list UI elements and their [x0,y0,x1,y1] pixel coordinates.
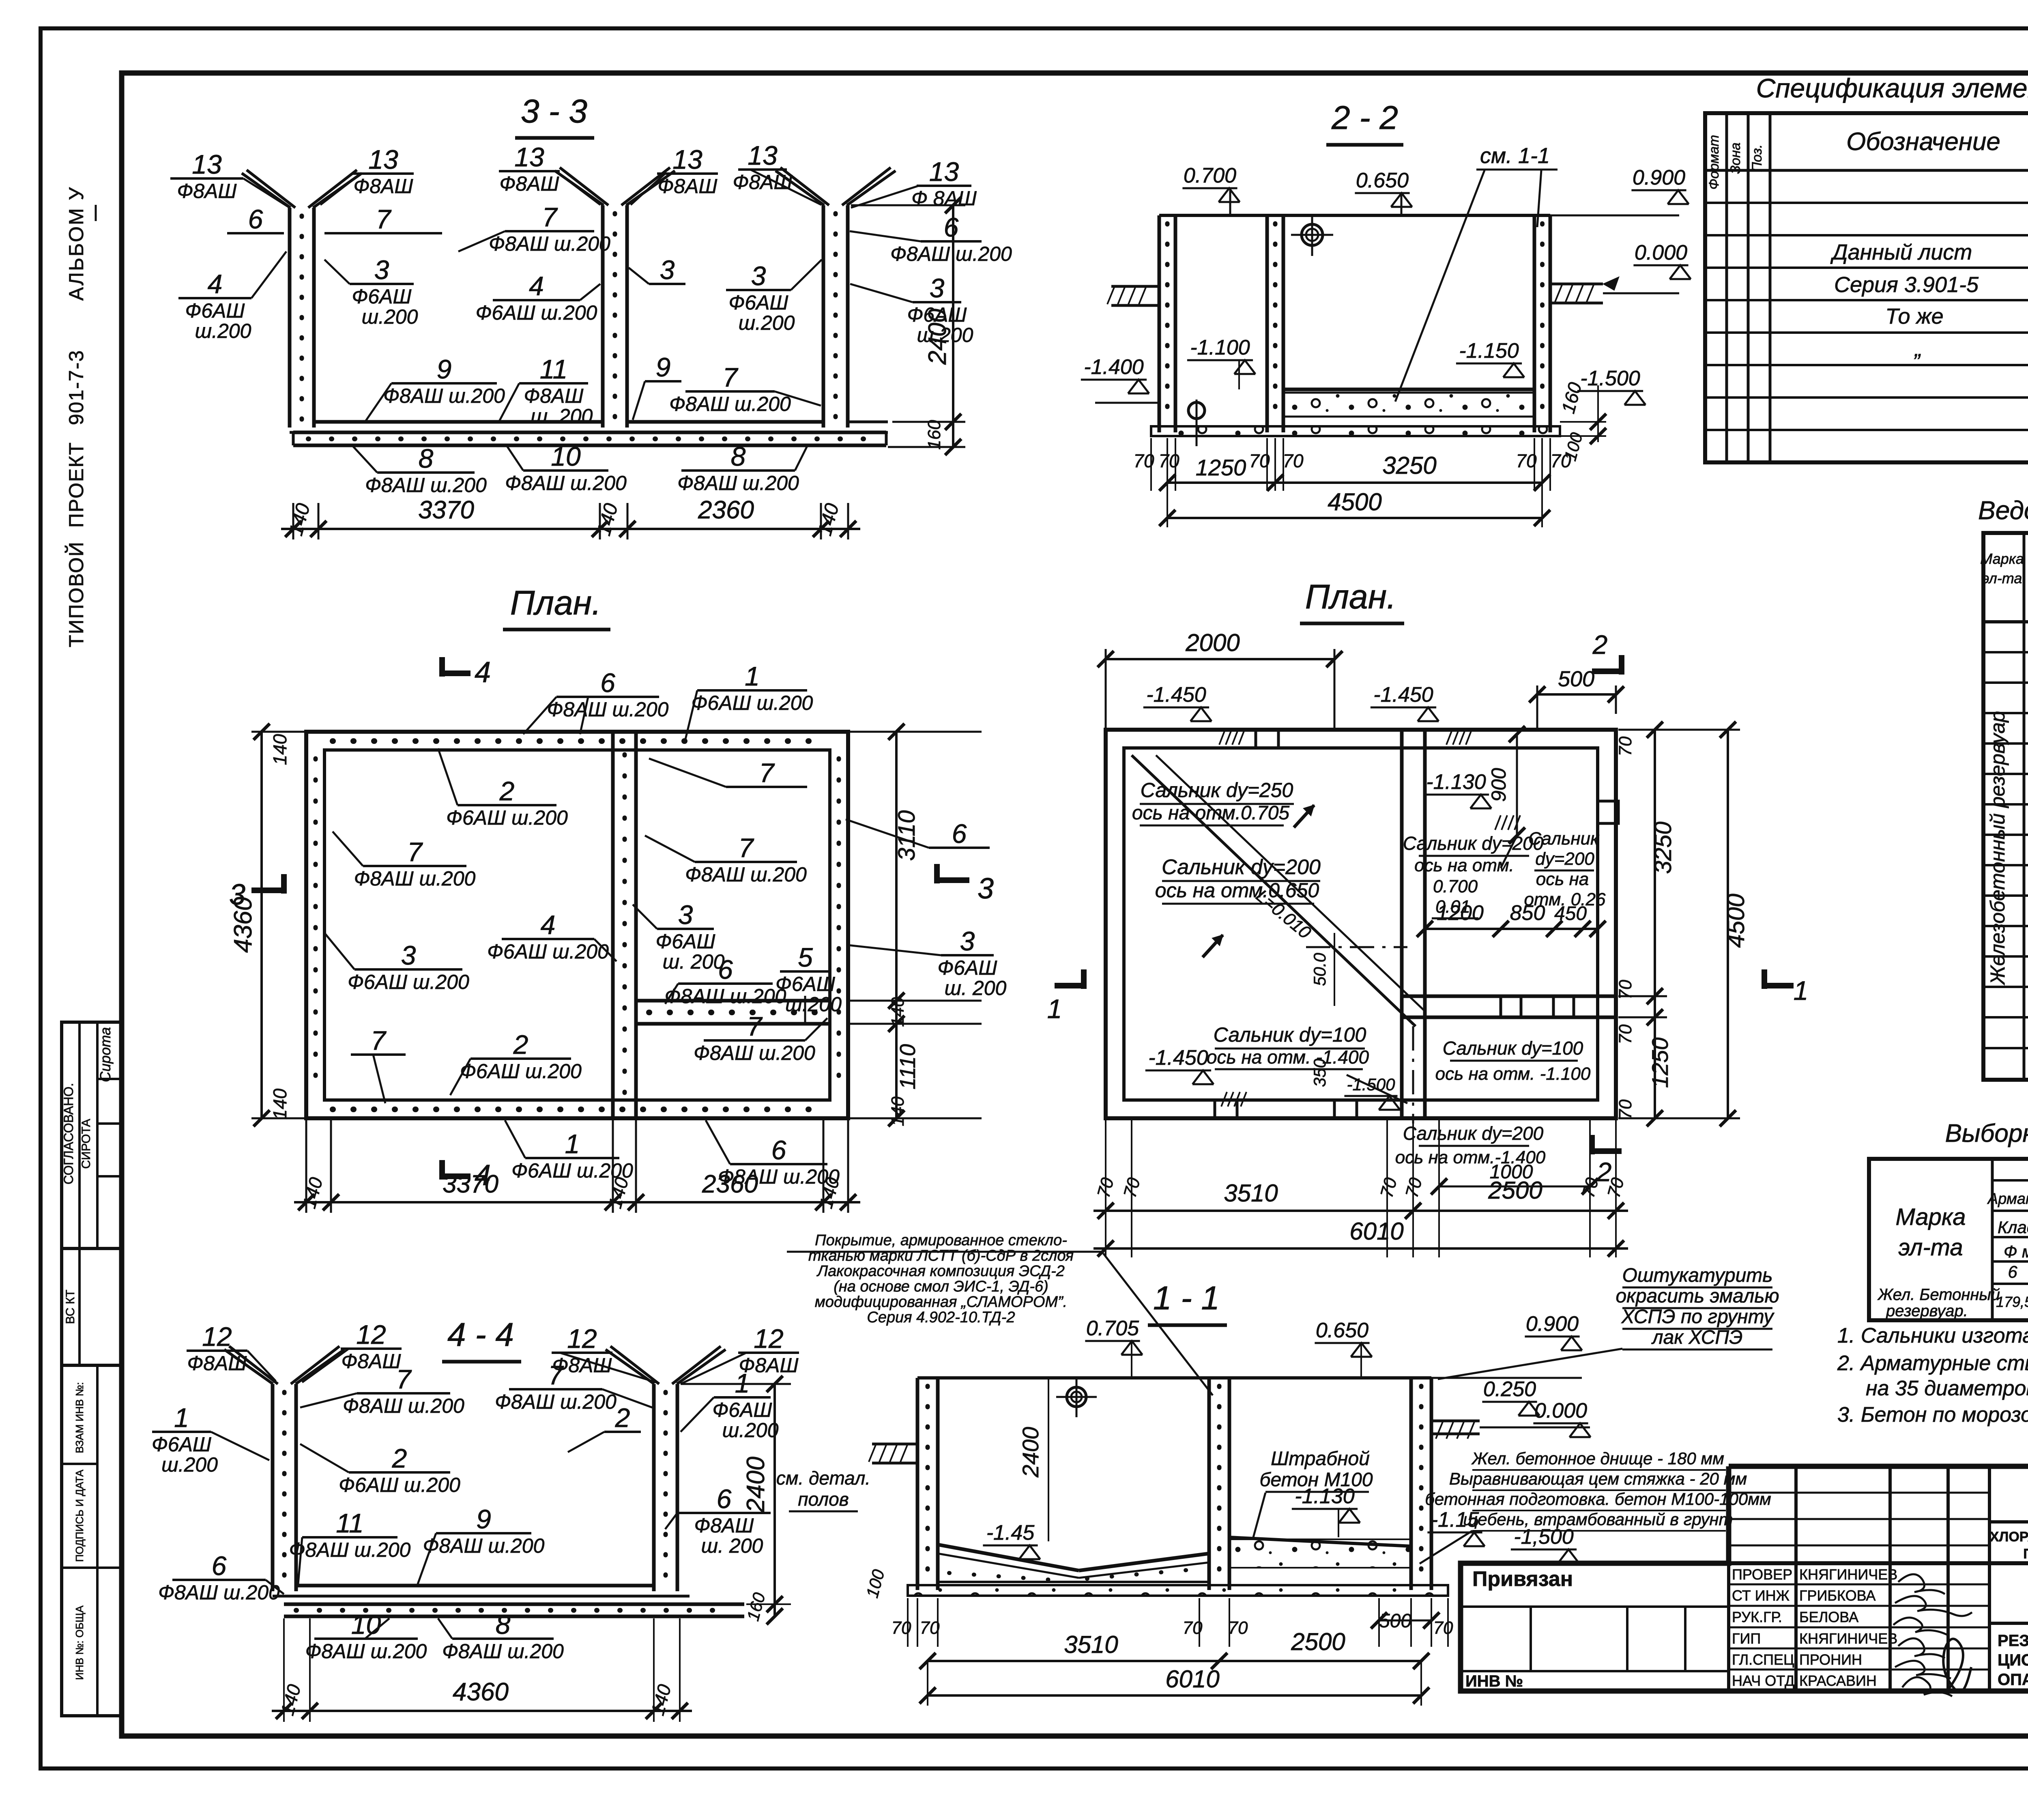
svg-text:8: 8 [496,1609,511,1640]
section 1-1 bottom dims [907,1598,909,1647]
svg-text:70: 70 [1228,1618,1248,1638]
svg-text:2360: 2360 [698,496,754,524]
svg-text:-1.400: -1.400 [1084,355,1144,379]
svg-text:9: 9 [656,352,671,382]
section 4-4 wall left [271,1384,275,1591]
section 4-4 bottom dims [272,1710,692,1712]
svg-text:6: 6 [771,1135,786,1165]
svg-text:4: 4 [529,271,544,301]
svg-text:Железобетонный резервуар: Железобетонный резервуар [1986,711,2009,986]
section 2-2 bottom slab [1151,426,1560,436]
svg-text:полов: полов [798,1489,849,1510]
svg-text:3250: 3250 [1382,452,1436,479]
section 3-3 bottom dimensions 140 3370 140 2360 140 [281,528,860,530]
title block signatures [1898,1574,1945,1594]
svg-text:Ф8АШ ш.200: Ф8АШ ш.200 [495,1390,617,1413]
svg-text:Ф6АШ ш.200: Ф6АШ ш.200 [692,692,813,714]
svg-text:Формат: Формат [1706,135,1722,189]
svg-text:модифицированная „СЛАМОРОМ”.: модифицированная „СЛАМОРОМ”. [815,1294,1068,1311]
svg-text:2: 2 [615,1403,630,1433]
title block left attrs box [1461,1605,1729,1608]
svg-text:Сальник dy=200: Сальник dy=200 [1403,1123,1544,1144]
svg-text:3370: 3370 [418,496,474,524]
svg-text:Ф8АШ ш.200: Ф8АШ ш.200 [305,1640,427,1663]
svg-text:3510: 3510 [1064,1631,1118,1658]
section 3-3 label 7 Ф8АШ ш.200 middle [505,230,594,232]
svg-text:0.700: 0.700 [1184,164,1236,187]
svg-text:3: 3 [751,261,766,291]
svg-text:3: 3 [930,273,945,303]
svg-text:Ф6АШ: Ф6АШ [352,285,412,308]
svg-text:Сальник dy=100: Сальник dy=100 [1214,1023,1366,1046]
svg-text:ш.200: ш.200 [362,305,418,328]
svg-text:3: 3 [660,255,675,285]
svg-text:Ф8АШ ш.200: Ф8АШ ш.200 [365,474,487,496]
svg-text:Спецификация элементов монол: Спецификация элементов монолитной констр… [1756,73,2028,103]
section 1-1 right chamber gravel bed [1229,1537,1411,1546]
svg-text:Выборка стали на один эле: Выборка стали на один элемент, кг [1945,1120,2028,1147]
svg-text:-1.450: -1.450 [1148,1046,1208,1070]
svg-text:6010: 6010 [1165,1665,1219,1693]
svg-text:160: 160 [924,420,944,450]
svg-text:ось на отм. -1.100: ось на отм. -1.100 [1435,1064,1591,1084]
svg-text:6: 6 [718,954,733,984]
svg-text:13: 13 [192,149,222,179]
svg-text:Жел. бетонное днище - 180 мм: Жел. бетонное днище - 180 мм [1471,1449,1724,1468]
svg-text:Ф8АШ ш.200: Ф8АШ ш.200 [383,385,505,407]
section 1-1 top edge [917,1376,1431,1380]
svg-text:Ф8АШ ш.200: Ф8АШ ш.200 [158,1581,280,1604]
svg-text:70: 70 [1616,1099,1635,1119]
section 3-3 label 9 right [645,380,681,382]
svg-text:ш. 200: ш. 200 [945,977,1007,999]
title block outer [1461,1466,2028,1691]
svg-text:Поз.: Поз. [1749,144,1765,172]
plan left section mark 3 left [251,887,284,893]
svg-text:11: 11 [336,1508,364,1538]
svg-text:Обозначение: Обозначение [1846,128,2000,156]
svg-text:4360: 4360 [229,897,257,953]
plan right section marks [1592,668,1622,674]
svg-text:2400: 2400 [1018,1427,1043,1478]
svg-text:Ф8АШ ш.200: Ф8АШ ш.200 [489,232,610,255]
svg-text:Ф8АШ ш.200: Ф8АШ ш.200 [677,472,799,494]
svg-text:Ф6АШ: Ф6АШ [938,956,998,979]
svg-text:ш.200: ш.200 [722,1419,779,1442]
svg-text:Ф6АШ: Ф6АШ [713,1399,773,1421]
svg-text:1 - 1: 1 - 1 [1153,1280,1220,1317]
svg-text:Сальник: Сальник [1528,829,1600,849]
section 3-3 label 7 [324,232,442,234]
svg-text:2400: 2400 [742,1457,770,1513]
svg-text:РУК.ГР.: РУК.ГР. [1732,1609,1782,1625]
svg-text:Ф6АШ ш.200: Ф6АШ ш.200 [348,971,469,993]
svg-text:850: 850 [1510,901,1545,925]
section 3-3 wall right [822,205,825,428]
svg-text:ВС КТ: ВС КТ [64,1290,77,1324]
svg-text:Сальник dy=100: Сальник dy=100 [1443,1038,1583,1059]
svg-text:4 - 4: 4 - 4 [447,1316,514,1353]
svg-text:10: 10 [551,441,581,471]
svg-text:Ф8АШ ш.200: Ф8АШ ш.200 [423,1534,545,1557]
svg-text:см. 1-1: см. 1-1 [1480,144,1550,168]
svg-text:Ф8АШ ш.200: Ф8АШ ш.200 [665,985,786,1008]
svg-text:9: 9 [476,1504,491,1534]
svg-text:3: 3 [678,900,693,930]
svg-text:Ф6АШ: Ф6АШ [729,291,789,314]
svg-text:ГРИБКОВА: ГРИБКОВА [1799,1587,1875,1604]
section 3-3 label 8 Ф8АШ ш.200 bottom left [377,471,475,474]
section 3-3 floor slab [314,420,603,424]
section 1-1 right ledge [1431,1420,1480,1422]
svg-text:(на основе смол ЭИС-1, ЭД-6): (на основе смол ЭИС-1, ЭД-6) [834,1278,1048,1295]
svg-text:Ф мм: Ф мм [2004,1242,2028,1261]
svg-text:РЕЗЕРВУАР ДЛЯ НЕЙТРАЛИЗА-: РЕЗЕРВУАР ДЛЯ НЕЙТРАЛИЗА- [1998,1631,2028,1650]
svg-text:4: 4 [208,269,223,299]
section 4-4 wall right [652,1384,656,1591]
svg-text:12: 12 [567,1324,597,1354]
title block name rows [1729,1584,1989,1586]
svg-text:резервуар.: резервуар. [1886,1302,1968,1320]
section 3-3 label 7 Ф8АШ ш.200 right [685,390,775,393]
svg-text:ИНВ №: ОБЩА: ИНВ №: ОБЩА [73,1605,86,1680]
plan right bottom dims [1093,1210,1628,1212]
svg-text:ПРОИЗВОДИТЕЛЬНОСТЬЮ 12,5 КГ ТО: ПРОИЗВОДИТЕЛЬНОСТЬЮ 12,5 КГ ТОВАРНОГО ХЛ… [2023,1546,2028,1562]
svg-text:Ведомость стержней на один: Ведомость стержней на один элемент [1978,496,2028,525]
section 1-1 pipe circle [1067,1387,1086,1407]
svg-text:Ф6АШ ш.200: Ф6АШ ш.200 [339,1474,460,1496]
svg-text:70: 70 [1093,1175,1118,1200]
svg-text:ПРОНИН: ПРОНИН [1799,1651,1862,1668]
plan right dim 900 [1516,734,1518,836]
svg-text:140: 140 [888,1096,908,1126]
svg-text:2: 2 [513,1029,528,1059]
svg-text:140: 140 [814,501,843,538]
svg-text:Ф8АШ: Ф8АШ [733,171,793,193]
section 2-2 pipe circle [1302,224,1323,245]
svg-text:6010: 6010 [1349,1218,1403,1245]
section 3-3 label 6 Ф8АШ ш.200 right [921,240,982,243]
svg-text:1250: 1250 [1647,1038,1673,1088]
svg-text:Ф6АШ ш.200: Ф6АШ ш.200 [476,301,597,324]
svg-text:-1.500: -1.500 [1580,367,1640,390]
svg-text:Жел. Бетонный: Жел. Бетонный [1877,1286,2000,1304]
svg-text:8: 8 [731,441,746,471]
svg-text:Серия 3.901-5: Серия 3.901-5 [1834,273,1979,297]
section 2-2 bottom dims [1150,438,1152,491]
svg-text:ПОДПИСЬ И ДАТА: ПОДПИСЬ И ДАТА [73,1470,86,1562]
svg-text:7: 7 [739,833,754,863]
svg-text:3: 3 [960,926,975,956]
svg-text:Ф6АШ ш.200: Ф6АШ ш.200 [460,1060,582,1083]
plan right outer walls [1106,730,1616,1118]
svg-text:1: 1 [1794,976,1809,1006]
svg-text:ш.200: ш.200 [161,1453,218,1476]
title block rows central empty [1729,1492,1989,1494]
svg-text:Привязан: Привязан [1472,1567,1573,1591]
svg-text:12: 12 [202,1321,232,1352]
section 3-3 label 11 Ф8АШ ш.200 [519,382,588,385]
section 4-4 labels [187,1349,247,1352]
svg-text:0.900: 0.900 [1526,1312,1579,1336]
svg-text:КНЯГИНИЧЕВ: КНЯГИНИЧЕВ [1799,1566,1897,1583]
plan left outer walls [306,732,848,1118]
svg-text:13: 13 [368,144,398,174]
svg-text:140: 140 [647,1682,675,1718]
plan right interior wall vertical [1400,730,1404,1118]
svg-text:3110: 3110 [894,810,920,861]
svg-text:70: 70 [1249,450,1270,471]
svg-text:4360: 4360 [453,1678,509,1706]
title block columns central [1727,1466,1730,1691]
svg-text:13: 13 [748,140,778,170]
svg-text:12: 12 [356,1319,386,1349]
svg-text:901-7-3: 901-7-3 [65,350,88,425]
svg-text:140: 140 [593,501,622,538]
plan right dims top 500 [1537,693,1616,696]
svg-text:350: 350 [1310,1058,1329,1087]
svg-text:179,5: 179,5 [1996,1294,2028,1310]
svg-text:ИНВ №: ИНВ № [1465,1672,1523,1690]
svg-text:бетонная подготовка. бетон М1: бетонная подготовка. бетон М100-100мм [1425,1489,1771,1508]
svg-text:ось на: ось на [1536,869,1589,889]
svg-text:2. Арматурные стыки выполнят: 2. Арматурные стыки выполнять „вразбежку… [1837,1352,2028,1375]
svg-text:3. Бетон по морозостойкости: 3. Бетон по морозостойкости МРЗ-50. Плот… [1837,1403,2028,1427]
svg-text:0.000: 0.000 [1635,241,1687,264]
svg-text:Сальник dy=200: Сальник dy=200 [1162,855,1321,879]
svg-text:0.900: 0.900 [1633,166,1685,189]
svg-text:ш.200: ш.200 [785,993,842,1016]
section 3-3 wall middle [601,205,605,428]
svg-text:70: 70 [1158,450,1179,471]
svg-text:Арматурная сталь ГОСТ 5781-75: Арматурная сталь ГОСТ 5781-75 [1987,1190,2028,1208]
svg-text:70: 70 [1433,1618,1453,1638]
svg-text:Класс АШ: Класс АШ [1998,1218,2028,1237]
svg-text:Марка: Марка [1895,1204,1966,1230]
svg-text:ГЛ.СПЕЦ: ГЛ.СПЕЦ [1732,1651,1794,1668]
svg-text:ось на отм.: ось на отм. [1414,855,1514,875]
svg-text:Ф8АШ ш.200: Ф8АШ ш.200 [685,863,807,886]
svg-text:НАЧ ОТД: НАЧ ОТД [1732,1672,1794,1689]
section 4-4 right dims 2400 160 [773,1384,776,1616]
svg-text:Выравнивающая цем стяжка - 20: Выравнивающая цем стяжка - 20 мм [1449,1469,1747,1488]
svg-text:4: 4 [475,656,491,689]
svg-text:-1.500: -1.500 [1347,1075,1395,1094]
svg-text:ГИП: ГИП [1732,1630,1761,1647]
svg-text:Ф8АШ: Ф8АШ [500,172,560,195]
svg-text:3370: 3370 [443,1170,498,1198]
svg-text:7: 7 [371,1025,387,1055]
svg-text:Ф6АШ ш.200: Ф6АШ ш.200 [487,940,609,963]
svg-text:КНЯГИНИЧЕВ: КНЯГИНИЧЕВ [1799,1630,1897,1647]
svg-text:9: 9 [437,354,452,384]
svg-text:-1.45: -1.45 [986,1521,1035,1545]
section 3-3 label 3 right of mid [649,283,685,285]
svg-text:Ф6АШ: Ф6АШ [185,299,245,322]
section 3-3 label 9 Ф8АШ ш.200 [391,382,497,385]
svg-text:70: 70 [1402,1175,1426,1200]
svg-text:Сирота: Сирота [97,1027,114,1082]
svg-text:3: 3 [401,940,416,970]
svg-text:2: 2 [1596,1157,1612,1187]
svg-text:500: 500 [1558,667,1594,691]
svg-text:5: 5 [798,942,813,972]
svg-text:Ф8АШ: Ф8АШ [354,175,414,198]
section 3-3 label 6 [227,232,284,234]
plan right right-side dims 3250 4500 1250 [1654,730,1656,1118]
svg-text:бетон М100: бетон М100 [1259,1469,1373,1491]
svg-text:2 - 2: 2 - 2 [1331,99,1398,136]
svg-text:Ф6АШ: Ф6АШ [776,973,836,995]
svg-text:лак ХСПЭ: лак ХСПЭ [1651,1327,1743,1348]
svg-text:140: 140 [269,1088,290,1120]
svg-text:-1.450: -1.450 [1146,683,1206,707]
svg-text:ВЗАМ ИНВ №:: ВЗАМ ИНВ №: [73,1382,86,1453]
svg-text:Серия 4.902-10.ТД-2: Серия 4.902-10.ТД-2 [867,1309,1015,1326]
svg-text:1: 1 [565,1129,580,1159]
svg-text:0.000: 0.000 [1534,1399,1587,1422]
svg-text:щебень, втрамбованный в грунт: щебень, втрамбованный в грунт [1463,1510,1733,1529]
plan left dimension lines [260,732,263,1118]
svg-text:на 35 диаметров.: на 35 диаметров. [1866,1377,2028,1400]
section 1-1 left bracket [872,1443,917,1446]
svg-text:Ф8АШ ш.200: Ф8АШ ш.200 [669,393,791,415]
svg-text:АЛЬБОМ У: АЛЬБОМ У [65,186,88,301]
svg-text:Ф6АШ: Ф6АШ [152,1433,212,1456]
svg-text:Ф8АШ: Ф8АШ [187,1352,247,1375]
svg-text:7: 7 [747,1011,763,1041]
svg-text:ХЛОРАТОРНАЯ ДЛЯ ОБЕЗЗАРАЖИВАНИ: ХЛОРАТОРНАЯ ДЛЯ ОБЕЗЗАРАЖИВАНИЯ ПИТЬЕВЫХ… [1990,1529,2028,1545]
svg-text:2000: 2000 [1185,629,1240,656]
svg-text:Ф8АШ ш.200: Ф8АШ ш.200 [343,1395,464,1417]
svg-text:0.700: 0.700 [1433,877,1478,896]
svg-text:70: 70 [1120,1175,1144,1200]
svg-text:Ф8АШ ш.200: Ф8АШ ш.200 [442,1640,564,1663]
svg-text:-1.150: -1.150 [1459,339,1519,363]
svg-text:Лакокрасочная композиция ЭСД: Лакокрасочная композиция ЭСД-2 [816,1263,1065,1280]
svg-text:ш. 200: ш. 200 [663,950,725,973]
section 2-2 right bracket [1550,283,1603,286]
plan left interior wall horizontal [636,999,830,1003]
svg-text:900: 900 [1487,768,1510,802]
section 4-4 floor slab [296,1584,654,1588]
svg-text:1. Сальники изготавливать из: 1. Сальники изготавливать из нержавеющей… [1837,1324,2028,1347]
svg-text:70: 70 [1616,980,1635,999]
svg-text:8: 8 [419,443,434,473]
svg-text:140: 140 [285,501,314,538]
svg-text:1: 1 [174,1403,189,1433]
svg-text:ось на отм.0.705: ось на отм.0.705 [1132,802,1290,824]
svg-text:70: 70 [920,1618,940,1638]
svg-text:Ф8АШ: Ф8АШ [524,385,584,407]
section 3-3 label 10 Ф8АШ ш.200 bottom [523,469,608,472]
section 2-2 top edge [1159,214,1550,217]
svg-text:ХСПЭ по грунту: ХСПЭ по грунту [1621,1306,1774,1328]
left strip table: инвентарные графы [62,1365,122,1716]
left strip table: СОГЛАСОВАНО block [62,1022,122,1248]
plan left labels [556,696,659,698]
svg-text:0.650: 0.650 [1316,1319,1368,1342]
svg-text:ось на отм.0.650: ось на отм.0.650 [1155,879,1319,902]
svg-text:КРАСАВИН: КРАСАВИН [1799,1672,1877,1689]
section 3-3 labels 13 Ф8АШ [170,177,243,180]
svg-text:70: 70 [1283,450,1304,471]
svg-text:БЕЛОВА: БЕЛОВА [1799,1609,1858,1625]
svg-text:ПРОВЕР: ПРОВЕР [1732,1566,1792,1583]
svg-text:7: 7 [548,1360,564,1390]
svg-text:100: 100 [862,1567,888,1600]
svg-text:140: 140 [298,1175,327,1211]
svg-text:-1.130: -1.130 [1426,770,1486,794]
plan right dims top 2000 [1106,658,1334,660]
svg-text:6: 6 [600,668,615,698]
left strip table: ВС КТ block [62,1248,122,1365]
svg-text:3510: 3510 [1224,1180,1278,1207]
svg-text:Ф8АШ ш.200: Ф8АШ ш.200 [505,472,627,494]
svg-text:3: 3 [977,872,994,905]
svg-text:3: 3 [374,255,389,285]
svg-text:ось на отм. -1.400: ось на отм. -1.400 [1207,1046,1369,1068]
svg-text:Ф8АШ ш.200: Ф8АШ ш.200 [890,243,1012,265]
svg-text:13: 13 [929,157,959,187]
svg-text:СОГЛАСОВАНО.: СОГЛАСОВАНО. [61,1083,76,1184]
svg-text:Ф6АШ: Ф6АШ [656,930,716,953]
svg-text:ш. 200: ш. 200 [531,405,593,428]
svg-text:Ф6АШ ш.200: Ф6АШ ш.200 [446,806,568,829]
svg-text:Ф8АШ ш.200: Ф8АШ ш.200 [354,867,476,890]
svg-text:7: 7 [759,758,775,788]
svg-text:СТ ИНЖ: СТ ИНЖ [1732,1587,1790,1604]
svg-text:7: 7 [542,202,558,232]
svg-text:Ф8АШ ш.200: Ф8АШ ш.200 [694,1042,815,1064]
svg-text:dy=200: dy=200 [1535,849,1594,869]
svg-text:2: 2 [392,1443,407,1473]
plan right pipe sleeves [1256,730,1278,748]
svg-text:окрасить эмалью: окрасить эмалью [1616,1285,1779,1307]
svg-text:1250: 1250 [1196,455,1246,480]
svg-text:6: 6 [212,1551,227,1581]
svg-text:0.250: 0.250 [1483,1377,1536,1401]
svg-text:2500: 2500 [1291,1628,1345,1655]
plan right interior wall horizontal [1402,995,1616,998]
svg-text:Ф8АШ: Ф8АШ [658,175,718,198]
svg-text:11: 11 [540,354,568,384]
section 3-3 label 8 Ф8АШ ш.200 bottom right [681,469,795,472]
svg-text:70: 70 [1377,1175,1401,1200]
svg-text:140: 140 [276,1682,305,1718]
section 3-3 right dimension 2400 160 [952,205,954,447]
svg-text:СИРОТА: СИРОТА [79,1119,93,1169]
section 1-1 walls [916,1378,919,1590]
svg-text:70: 70 [1616,1024,1635,1044]
svg-text:эл-та: эл-та [1982,570,2022,587]
section 1-1 left chamber sloped floor [938,1545,1079,1571]
svg-text:Ф 8АШ: Ф 8АШ [911,187,977,210]
svg-text:-1.100: -1.100 [1190,336,1250,359]
svg-text:Ф8АШ: Ф8АШ [342,1350,402,1373]
plan right interior dims 1200 850 450 [1425,928,1598,930]
svg-text:70: 70 [892,1618,911,1638]
svg-text:Зона: Зона [1728,142,1743,174]
svg-text:Штрабной: Штрабной [1271,1448,1370,1470]
svg-text:Покрытие, армированное стекло: Покрытие, армированное стекло- [815,1232,1067,1249]
svg-text:-1.450: -1.450 [1373,683,1433,707]
svg-text:2: 2 [499,776,515,806]
plan right inner chamber lines [1425,748,1598,996]
plan right flow arrows [1294,805,1314,827]
svg-text:ш.200: ш.200 [195,320,251,342]
svg-text:6: 6 [248,204,263,234]
